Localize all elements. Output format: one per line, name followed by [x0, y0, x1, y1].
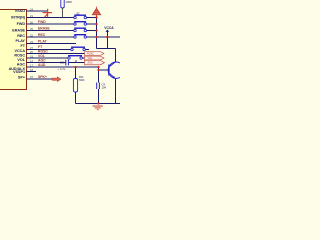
svg-text:FWD: FWD — [38, 20, 46, 24]
svg-text:C10: C10 — [60, 60, 65, 64]
wire base — [99, 69, 109, 71]
svg-text:560K: 560K — [79, 79, 85, 82]
wire ERASE — [27, 30, 74, 32]
capacitor C10 — [57, 60, 69, 71]
svg-text:VSSP1: VSSP1 — [13, 70, 25, 74]
svg-text:100K: 100K — [66, 0, 73, 4]
wire VCCA branch down — [106, 37, 108, 48]
svg-text:VSSO: VSSO — [15, 9, 25, 13]
svg-text:ROSC: ROSC — [38, 50, 48, 54]
wire horizontal to collector — [97, 47, 116, 49]
wire ROSC — [27, 53, 85, 55]
junction dot VCCA branch — [106, 36, 108, 38]
resistor R11 — [73, 75, 85, 92]
resistor R? 100K vertical top — [61, 0, 72, 18]
wire AGC — [27, 62, 66, 64]
svg-text:AUD: AUD — [38, 63, 46, 67]
svg-text:PLAY: PLAY — [16, 39, 26, 43]
junction dot base — [97, 69, 99, 71]
wire FWD — [27, 23, 74, 25]
svg-text:PLAY: PLAY — [38, 40, 47, 44]
red cursor mark — [43, 9, 53, 17]
capacitor C9 — [96, 82, 106, 89]
svg-text:+: + — [57, 67, 59, 71]
port AGC — [85, 60, 105, 64]
switch S4 (ERASE row) — [74, 28, 87, 32]
svg-text:VCCA: VCCA — [15, 49, 26, 53]
svg-text:FT: FT — [20, 44, 25, 48]
switch S3 (FWD row) — [74, 21, 87, 25]
svg-text:VCCA: VCCA — [104, 26, 114, 30]
wire R11 bottom — [75, 92, 77, 104]
junction dot AUD branch — [97, 66, 99, 68]
svg-text:ROSC: ROSC — [14, 54, 25, 58]
svg-text:SP+: SP+ — [18, 75, 25, 79]
svg-text:AGC: AGC — [38, 59, 46, 63]
switch S5 (REC row) — [74, 34, 87, 38]
svg-text:4.7u: 4.7u — [60, 67, 66, 71]
svg-text:REC: REC — [17, 34, 25, 38]
port VOL — [85, 56, 105, 60]
svg-text:AGC: AGC — [88, 62, 93, 65]
switch S7 (FT row) — [71, 47, 86, 51]
svg-text:ERASE: ERASE — [38, 27, 50, 31]
wire collector vertical — [114, 48, 116, 62]
switch S2 (INTR row) — [74, 15, 87, 19]
wire SP+ — [27, 78, 53, 80]
port ROSC — [85, 52, 105, 65]
IC U1 pin numbers — [30, 8, 33, 80]
IC U1 pin names — [9, 9, 26, 79]
wire ground rail — [76, 103, 121, 105]
pin stub VSSP1 — [27, 71, 37, 73]
wire VCCA net to right edge — [97, 36, 121, 38]
svg-text:INTR(N): INTR(N) — [11, 16, 25, 20]
ground symbol — [93, 105, 103, 110]
svg-text:AGC: AGC — [17, 63, 26, 67]
VCCA power port arrow — [105, 30, 109, 32]
wire FT — [27, 49, 72, 51]
svg-text:ROSC: ROSC — [87, 52, 94, 55]
svg-text:VOL: VOL — [38, 54, 45, 58]
wire PLAY — [27, 43, 77, 45]
VCC power symbol (red bar tree) — [92, 7, 101, 18]
svg-text:M: M — [75, 60, 77, 63]
wire AUD branch down to base and C9 — [98, 67, 100, 83]
svg-text:104: 104 — [102, 86, 107, 90]
svg-text:VOL: VOL — [17, 58, 25, 62]
wire C9 bottom — [98, 89, 100, 104]
svg-text:S2: S2 — [76, 11, 80, 15]
junction dot ground rail — [97, 102, 99, 104]
wire INTR — [27, 17, 74, 19]
svg-text:FWD: FWD — [17, 22, 26, 26]
svg-text:REC: REC — [38, 33, 46, 37]
wire R11 top — [75, 67, 77, 79]
wire VOL — [27, 57, 69, 59]
svg-text:VOL: VOL — [88, 57, 93, 60]
wire VCCA power stem up — [106, 32, 108, 38]
switch S8 (VOL row) — [68, 55, 83, 59]
svg-text:ERASE: ERASE — [12, 29, 25, 33]
wire emitter vertical — [115, 79, 117, 104]
wire VSSO — [27, 10, 48, 12]
junction dots on VCC bus — [74, 16, 108, 104]
svg-text:SPK+: SPK+ — [38, 75, 47, 79]
junction dot R11 top — [74, 66, 76, 68]
IC U1 body — [0, 10, 27, 90]
wire REC — [27, 36, 74, 38]
wire switch outputs to VCC bus — [87, 17, 97, 19]
wire AUD/AUX — [27, 66, 99, 68]
port SPK+ arrow — [52, 77, 61, 82]
wire VCC bus vertical — [96, 16, 98, 49]
transistor Q1 — [108, 62, 124, 79]
